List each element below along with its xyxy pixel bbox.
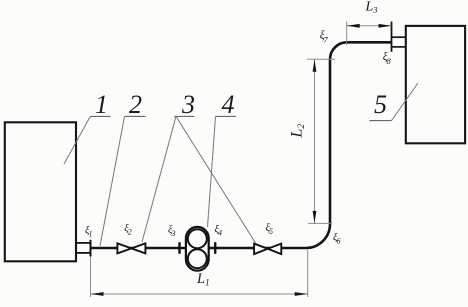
svg-text:1: 1 [95, 90, 108, 119]
label 5 [369, 83, 418, 121]
tank 1 (left reservoir) [5, 122, 76, 261]
dimension L2 [307, 59, 335, 223]
wire leader 5 into tank 5 [392, 83, 419, 121]
valve V1 (xi2) [117, 243, 145, 253]
wire leader 3b to valve V2 [176, 116, 256, 243]
dimension L1 [91, 250, 308, 297]
wire main pipe run [91, 42, 392, 248]
svg-text:4: 4 [222, 90, 235, 119]
label 4 [208, 90, 236, 227]
tank 5 (right reservoir) [406, 26, 465, 143]
dimension L3 [347, 22, 392, 46]
valve V2 (xi5) [254, 244, 281, 255]
svg-text:2: 2 [129, 90, 142, 119]
node inlet nozzle of tank 5 [392, 37, 406, 47]
pump P1 (gear pump, xi3/xi4) [180, 227, 216, 271]
node flange xi8 [391, 22, 393, 52]
node flange xi1 [90, 240, 92, 257]
svg-text:5: 5 [374, 90, 387, 119]
label 1 [64, 90, 110, 164]
node outlet nozzle of tank 1 [76, 243, 91, 253]
wire leader 3a to valve V1 [142, 116, 176, 242]
wire leader 1 [64, 116, 90, 164]
label 2 [100, 90, 146, 246]
label 3 [142, 90, 256, 243]
wire leader 4 to pump [208, 116, 216, 227]
svg-text:3: 3 [181, 90, 195, 119]
wire leader 2 [100, 116, 125, 246]
